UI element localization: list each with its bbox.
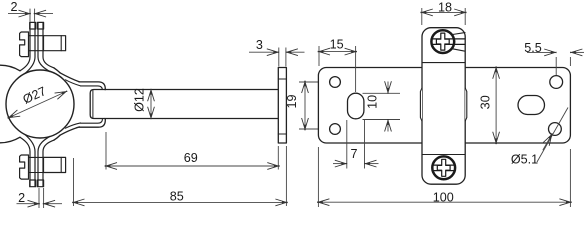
hole top-left xyxy=(330,77,341,88)
bottom screw head (slotted, side profile) xyxy=(20,155,29,179)
saddle side ribs xyxy=(420,88,422,121)
top strip end caps xyxy=(30,22,36,29)
dim 19 side extensions xyxy=(299,81,336,83)
svg-text:Ø12: Ø12 xyxy=(133,88,147,112)
left slot 7x10 xyxy=(348,93,364,119)
svg-text:100: 100 xyxy=(433,191,454,205)
svg-text:2: 2 xyxy=(10,0,17,14)
top screw head (slotted, side profile) xyxy=(20,32,29,57)
saddle clamp body xyxy=(422,28,465,185)
dim 2 top extension lines xyxy=(29,9,31,22)
saddle fold lines xyxy=(422,62,464,64)
svg-text:5.5: 5.5 xyxy=(524,41,542,55)
dim 69 line xyxy=(106,165,278,167)
dim 85 line xyxy=(74,201,287,203)
svg-text:85: 85 xyxy=(170,190,184,204)
svg-text:2: 2 xyxy=(18,191,25,205)
dim 3 extension lines xyxy=(278,48,280,67)
bottom bolt with nut xyxy=(44,157,66,172)
rod sleeve inner line xyxy=(81,86,103,123)
dim 18 line xyxy=(422,11,465,13)
top screw strap lines xyxy=(453,33,466,35)
bottom band strips xyxy=(20,137,30,186)
rod socket xyxy=(90,90,104,119)
dim 2 bottom extension lines xyxy=(38,188,40,208)
bottom clamp screw shaft lines xyxy=(29,156,44,158)
hole bottom-left xyxy=(330,124,341,135)
band to sleeve merge, inner edges xyxy=(66,80,81,86)
top bolt with nut xyxy=(44,36,66,51)
dim 100 extensions xyxy=(317,147,319,207)
inner ring circle Ø27 xyxy=(6,70,74,138)
dim 18 extensions xyxy=(421,8,423,25)
dim 7 extensions xyxy=(346,120,348,169)
outer ring band (pipe clamp, arcs with gaps at strips and sleeve) xyxy=(0,65,20,143)
dim 15 line xyxy=(319,51,356,53)
svg-text:69: 69 xyxy=(184,151,198,165)
screw top (cross-slotted head) xyxy=(431,30,465,53)
screw bottom (cross-slotted head) xyxy=(432,156,455,179)
dim 3 arrows xyxy=(249,51,278,53)
dim 30 line xyxy=(495,68,497,143)
band to sleeve merge, outer edges xyxy=(60,73,80,82)
dim Ø12 arrow xyxy=(150,90,152,118)
dim 10 arrows xyxy=(387,82,389,93)
top clamp screw shaft lines xyxy=(29,35,44,37)
dim Ø27 diameter arrow xyxy=(9,92,66,118)
svg-text:15: 15 xyxy=(330,37,344,51)
svg-text:19: 19 xyxy=(285,94,299,108)
svg-text:3: 3 xyxy=(256,38,263,52)
svg-text:30: 30 xyxy=(479,95,493,109)
right oblong hole xyxy=(518,96,545,115)
dim 7 arrows xyxy=(333,163,346,165)
wall plate edge view xyxy=(278,68,286,144)
dim 19 line xyxy=(304,82,306,129)
dim 2 bottom arrows xyxy=(17,203,39,205)
svg-text:Ø5.1: Ø5.1 xyxy=(511,152,538,166)
dim 10 extensions xyxy=(363,92,401,94)
hole bottom-right Ø5.1 xyxy=(549,123,562,136)
mounting plate 100x30 xyxy=(318,68,570,144)
hole top-right Ø5.1 xyxy=(550,76,563,89)
svg-text:10: 10 xyxy=(365,95,379,109)
svg-text:Ø27: Ø27 xyxy=(21,84,48,107)
rod sleeve outer xyxy=(79,82,105,127)
leader Ø5.1 xyxy=(537,108,568,163)
svg-text:7: 7 xyxy=(350,147,357,161)
dim 5.5 extensions xyxy=(555,57,557,75)
top band strips xyxy=(20,23,30,71)
dim 15 extensions xyxy=(318,46,320,66)
bottom strip end caps xyxy=(30,180,36,187)
rod Ø12 xyxy=(105,90,279,118)
dim 69 extension lines xyxy=(105,132,107,170)
dim 85 extension lines xyxy=(73,158,75,206)
dim 100 line xyxy=(318,201,570,203)
dim 5.5 arrows xyxy=(527,51,555,53)
svg-text:18: 18 xyxy=(438,0,452,14)
dim 2 top arrows xyxy=(8,13,30,15)
